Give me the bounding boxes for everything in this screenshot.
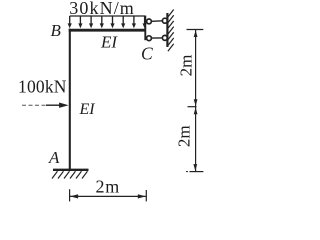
svg-text:2m: 2m (96, 177, 121, 197)
right dimension arrow down (above mid) (194, 99, 198, 106)
svg-text:B: B (51, 21, 62, 40)
svg-text:EI: EI (100, 32, 118, 51)
bottom link bar (151, 37, 162, 39)
bottom dimension left tick (69, 189, 71, 201)
top link bar (151, 20, 162, 23)
right dimension line (195, 30, 197, 172)
svg-text:C: C (141, 44, 153, 64)
svg-text:30kN/m: 30kN/m (69, 0, 135, 18)
column AB (69, 29, 71, 170)
distributed load arrow stems (70, 16, 145, 25)
right dimension mid tick (188, 106, 197, 108)
right dimension arrow up (top) (194, 30, 198, 37)
top link right hinge circle (162, 18, 167, 23)
wall hatching (168, 10, 174, 52)
bottom dimension left arrowhead (70, 194, 78, 198)
fixed support hatching at A (52, 171, 88, 178)
bottom dimension right arrowhead (138, 194, 146, 198)
bottom link left hinge circle (147, 36, 152, 41)
100kN force arrow (faint dashed tail) (22, 104, 47, 106)
right dimension arrow up (below mid) (194, 107, 198, 114)
distributed load arrowheads (68, 23, 147, 28)
beam BC (69, 29, 146, 32)
right dimension top tick (187, 29, 204, 31)
bottom dimension right tick (145, 190, 147, 201)
100kN force arrow shaft (46, 104, 62, 106)
svg-text:A: A (48, 148, 60, 167)
right dimension bottom tick (190, 171, 204, 173)
svg-text:EI: EI (79, 101, 96, 118)
svg-text:2m: 2m (175, 125, 194, 147)
svg-text:100kN: 100kN (18, 77, 67, 97)
100kN force arrowhead (59, 103, 69, 108)
top link left hinge circle (147, 19, 152, 24)
fixed support ground line at A (53, 169, 89, 171)
wall line (166, 13, 168, 47)
right dimension arrow down (bottom) (193, 164, 197, 171)
svg-text:2m: 2m (176, 55, 195, 77)
bottom link right hinge circle (162, 35, 167, 40)
beam end post at C (144, 16, 146, 41)
distributed load top line (70, 15, 146, 17)
bottom dimension line (70, 195, 147, 197)
